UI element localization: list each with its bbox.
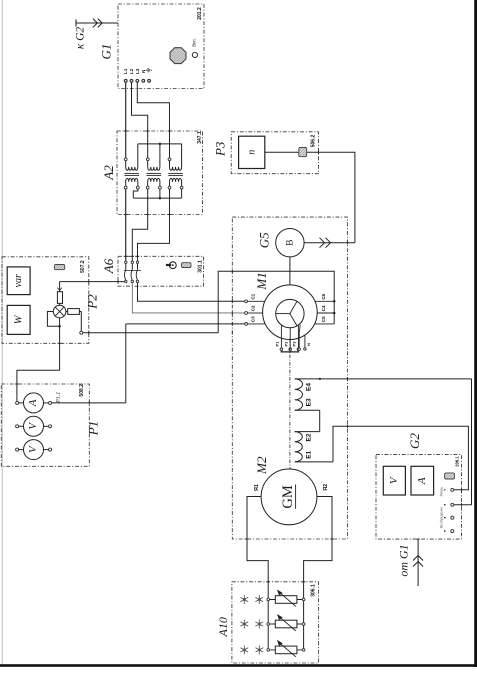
svg-text:Р1: Р1 bbox=[274, 341, 279, 347]
svg-text:L1: L1 bbox=[123, 68, 128, 74]
svg-text:E4: E4 bbox=[306, 383, 313, 391]
svg-text:A6: A6 bbox=[101, 258, 116, 274]
svg-text:N: N bbox=[306, 343, 311, 346]
svg-text:E1: E1 bbox=[306, 450, 313, 458]
svg-text:206.1: 206.1 bbox=[455, 456, 460, 467]
svg-text:Р2: Р2 bbox=[283, 341, 288, 347]
svg-text:M1: M1 bbox=[254, 272, 269, 290]
svg-text:G5: G5 bbox=[256, 232, 271, 248]
svg-text:С2: С2 bbox=[251, 305, 256, 311]
svg-text:P3: P3 bbox=[213, 141, 228, 157]
svg-text:Якорь: Якорь bbox=[439, 487, 443, 497]
svg-text:E3: E3 bbox=[306, 398, 313, 406]
svg-text:Р3: Р3 bbox=[291, 341, 296, 347]
svg-text:С1: С1 bbox=[251, 293, 256, 299]
svg-text:N: N bbox=[141, 70, 146, 73]
svg-text:G1: G1 bbox=[98, 44, 113, 60]
svg-text:Вкл.: Вкл. bbox=[191, 38, 196, 47]
svg-text:E2: E2 bbox=[306, 433, 313, 441]
svg-text:201.2: 201.2 bbox=[197, 7, 203, 20]
svg-text:P1.1: P1.1 bbox=[56, 392, 62, 404]
svg-text:A: A bbox=[27, 399, 39, 407]
svg-text:A: A bbox=[416, 477, 428, 485]
svg-text:от G1: от G1 bbox=[396, 544, 410, 576]
svg-text:С6: С6 bbox=[321, 293, 326, 299]
svg-text:Я2: Я2 bbox=[323, 484, 329, 491]
svg-text:347.1: 347.1 bbox=[197, 131, 203, 144]
svg-text:С5: С5 bbox=[321, 316, 326, 322]
svg-text:B: B bbox=[286, 240, 296, 246]
svg-text:507.2: 507.2 bbox=[80, 260, 86, 273]
svg-text:P2: P2 bbox=[84, 294, 99, 310]
svg-text:Возбуждение: Возбуждение bbox=[439, 507, 443, 528]
svg-text:С3: С3 bbox=[251, 316, 256, 322]
svg-text:P1: P1 bbox=[85, 421, 100, 436]
svg-text:A10: A10 bbox=[216, 617, 230, 637]
svg-text:306.1: 306.1 bbox=[310, 584, 316, 597]
svg-text:var: var bbox=[13, 274, 24, 287]
svg-text:L3: L3 bbox=[135, 68, 140, 74]
svg-text:Я1: Я1 bbox=[254, 484, 260, 491]
svg-text:508.2: 508.2 bbox=[79, 384, 85, 397]
svg-text:С4: С4 bbox=[321, 305, 326, 311]
svg-text:n: n bbox=[246, 150, 257, 155]
svg-text:G2: G2 bbox=[407, 433, 422, 449]
svg-text:506.2: 506.2 bbox=[310, 135, 316, 148]
svg-text:GM: GM bbox=[280, 485, 296, 508]
svg-text:A2: A2 bbox=[101, 165, 116, 181]
svg-text:W: W bbox=[13, 314, 24, 324]
svg-text:к G2: к G2 bbox=[74, 27, 86, 50]
svg-text:L2: L2 bbox=[129, 68, 134, 74]
svg-text:M2: M2 bbox=[254, 456, 269, 475]
svg-text:301.1: 301.1 bbox=[198, 260, 204, 273]
